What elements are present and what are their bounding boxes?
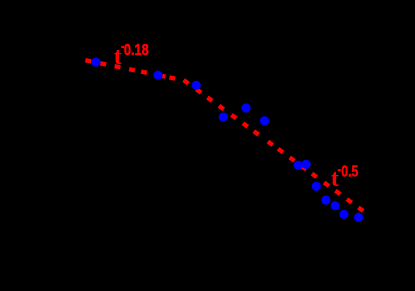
- svg-text:0.18: 0.18: [124, 42, 149, 59]
- svg-text:0.5: 0.5: [341, 164, 358, 181]
- svg-text:t: t: [331, 166, 339, 192]
- svg-text:t: t: [114, 44, 122, 70]
